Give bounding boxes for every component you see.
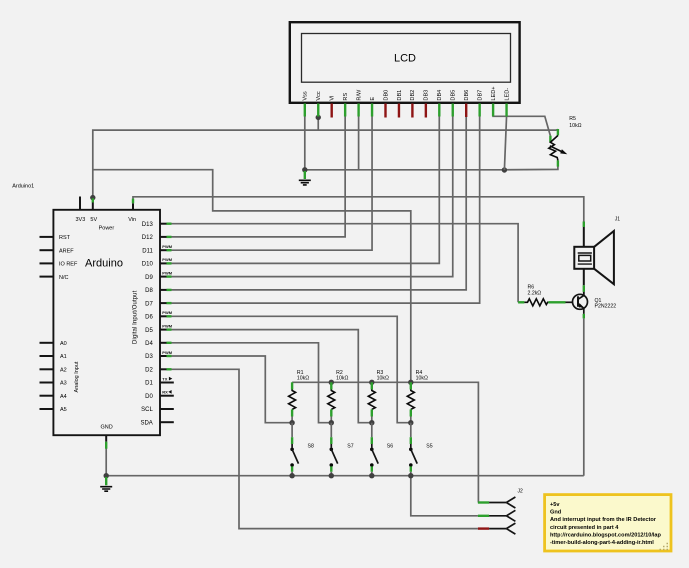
wire Vin to speaker top [133, 197, 584, 222]
pin SCL [141, 407, 174, 413]
resistor R4 10k [407, 370, 428, 423]
speaker J1 [574, 216, 620, 284]
node R3 top [369, 380, 374, 385]
switch S7 [330, 423, 354, 476]
svg-text:GND: GND [100, 425, 112, 431]
pin D13 [142, 222, 172, 228]
svg-text:D7: D7 [145, 301, 153, 307]
ground LCD Vss [299, 171, 311, 185]
svg-text:DB6: DB6 [464, 90, 470, 101]
pin SDA [140, 420, 173, 426]
wire DB4 to Arduino D10 [171, 117, 439, 264]
svg-text:circuit presented in part 4: circuit presented in part 4 [550, 525, 619, 531]
svg-text:A1: A1 [60, 354, 67, 360]
ground Arduino GND [100, 477, 112, 491]
pin RST [40, 235, 71, 241]
pin D4 [145, 341, 171, 347]
svg-text:D3: D3 [145, 354, 153, 360]
node R2 bottom [329, 420, 334, 425]
svg-text:DB7: DB7 [477, 90, 483, 101]
svg-text:R/W: R/W [356, 89, 362, 101]
svg-text:SCL: SCL [141, 407, 153, 413]
svg-text:RST: RST [59, 235, 71, 241]
svg-text:A2: A2 [60, 368, 67, 374]
svg-text:10kΩ: 10kΩ [377, 376, 389, 382]
svg-text:S7: S7 [347, 444, 353, 450]
svg-text:D0: D0 [145, 394, 153, 400]
LCD pin DB0 unconnected [383, 90, 389, 118]
svg-text:D6: D6 [145, 315, 153, 321]
wire D5 to R3 bottom [171, 330, 372, 423]
pin D3 PWM [145, 350, 173, 360]
node S5 bottom [408, 473, 413, 478]
node Vss ground junction [302, 167, 307, 172]
wire LED- slanted to ground rail [504, 117, 506, 171]
pin IO REF [40, 262, 78, 268]
svg-text:J1: J1 [615, 216, 621, 222]
resistor R3 10k [368, 370, 389, 423]
wire Vss down to ground [304, 117, 306, 170]
svg-text:PWM: PWM [162, 350, 172, 355]
svg-text:DB2: DB2 [410, 90, 416, 101]
svg-text:TX: TX [162, 376, 167, 381]
pin D10 PWM [142, 257, 173, 267]
svg-text:Gnd: Gnd [550, 510, 562, 516]
resistor R1 10k [289, 370, 310, 423]
svg-text:P2N2222: P2N2222 [595, 304, 617, 310]
wire E to Arduino D11 [171, 117, 372, 251]
pin D8 [145, 288, 171, 294]
LCD pin Vl unconnected [330, 96, 336, 118]
svg-text:D2: D2 [145, 368, 153, 374]
wire RS to Arduino D12 [171, 117, 345, 237]
wire S5 bottom to J2 pin 2 [411, 476, 478, 516]
wire pullup rail R1 to J2 pin 1 [292, 382, 478, 502]
svg-text:5V: 5V [90, 217, 97, 223]
svg-text:3V3: 3V3 [76, 217, 86, 223]
svg-text:Vl: Vl [330, 96, 336, 101]
svg-text:D11: D11 [142, 248, 153, 254]
wire ground bottom rail [106, 475, 584, 477]
svg-text:10kΩ: 10kΩ [416, 376, 428, 382]
svg-text:LED+: LED+ [491, 86, 497, 100]
pin A4 [40, 394, 67, 400]
Arduino U1 (Arduino1) [53, 210, 160, 435]
svg-text:AREF: AREF [59, 248, 74, 254]
wire D2 to J2 pin 3 [171, 369, 478, 528]
svg-text:DB1: DB1 [397, 90, 403, 101]
connector J2 pin 1 [478, 497, 516, 508]
pin D9 PWM [145, 270, 173, 280]
pin D7 [145, 301, 171, 307]
svg-text:2.2kΩ: 2.2kΩ [528, 290, 542, 296]
svg-text:Arduino: Arduino [85, 258, 123, 270]
wire speaker to Q1 collector [583, 269, 585, 296]
LCD pin DB6 red leg [464, 90, 470, 117]
svg-text:RX: RX [162, 390, 168, 395]
svg-text:SDA: SDA [140, 420, 152, 426]
LCD pin Vss [303, 91, 309, 116]
LCD pin DB4 [437, 90, 443, 117]
svg-text:And interrupt input from the I: And interrupt input from the IR Detector [550, 517, 657, 523]
pin A0 [40, 341, 67, 347]
svg-text:S8: S8 [308, 444, 314, 450]
node R4 top [408, 380, 413, 385]
svg-text:PWM: PWM [162, 310, 172, 315]
pin D11 PWM [142, 244, 173, 254]
pin 5V leg [92, 198, 94, 210]
svg-text:PWM: PWM [162, 270, 172, 275]
transistor Q1 P2N2222 [566, 292, 617, 319]
node LED- junction [502, 167, 507, 172]
connector J2 pin 2 [478, 510, 516, 521]
svg-text:N/C: N/C [59, 275, 69, 281]
pin AREF [40, 248, 75, 254]
wire D4 to R2 bottom [171, 343, 331, 423]
svg-text:RS: RS [343, 93, 349, 101]
svg-text:DB3: DB3 [424, 90, 430, 101]
pin D1 TX [145, 376, 174, 386]
LCD pin R/W [356, 89, 362, 116]
LCD pin DB2 unconnected [410, 90, 416, 118]
pin N/C [40, 275, 69, 281]
LCD pin RS [343, 93, 349, 117]
svg-text:DB5: DB5 [451, 90, 457, 101]
LCD pin DB5 [451, 90, 457, 117]
svg-text:Vin: Vin [128, 217, 136, 223]
note yellow sticky [545, 495, 671, 551]
svg-text:DB0: DB0 [383, 90, 389, 101]
wire DB5 to Arduino D9 [171, 117, 453, 277]
node S6 bottom [369, 473, 374, 478]
svg-text:LED-: LED- [504, 88, 510, 101]
pin D0 RX [145, 390, 174, 400]
svg-text:PWM: PWM [162, 323, 172, 328]
wire Vcc tap down to 5V rail [317, 117, 319, 130]
svg-text:D13: D13 [142, 222, 154, 228]
svg-text:D8: D8 [145, 288, 153, 294]
pin A5 [40, 407, 67, 413]
wire DB7 to Arduino D7 [171, 117, 480, 304]
svg-text:Vss: Vss [303, 91, 309, 101]
node S8 bottom [289, 473, 294, 478]
svg-text:DB4: DB4 [437, 90, 443, 101]
svg-text:http://rcarduino.blogspot.com/: http://rcarduino.blogspot.com/2012/10/la… [550, 532, 662, 538]
pin D2 [145, 368, 171, 374]
node GND junction [104, 473, 109, 478]
svg-text:Vcc: Vcc [316, 91, 322, 101]
wire LCD ground rail to R5 bottom [305, 166, 558, 169]
node Vcc junction [316, 115, 321, 120]
svg-text:LCD: LCD [394, 53, 416, 65]
svg-text:D5: D5 [145, 328, 153, 334]
pin A1 [40, 354, 67, 360]
LCD pin Vcc [316, 91, 322, 116]
LCD pin DB7 [477, 90, 483, 117]
svg-text:Analog Input: Analog Input [74, 361, 80, 392]
svg-text:+5v: +5v [550, 502, 560, 508]
svg-text:A5: A5 [60, 407, 67, 413]
wire DB6 to Arduino D8 [171, 117, 466, 290]
wire D3 to R1 bottom [171, 356, 292, 423]
svg-text:Power: Power [99, 226, 115, 232]
svg-text:10kΩ: 10kΩ [569, 123, 581, 129]
svg-text:A0: A0 [60, 341, 67, 347]
svg-text:D12: D12 [142, 235, 154, 241]
svg-text:S6: S6 [387, 444, 393, 450]
resistor R2 10k [328, 370, 349, 423]
LCD pin LED- [504, 88, 510, 117]
wire 5V rail from Arduino 5V up and right to R5 top [93, 130, 558, 198]
node S7 bottom [329, 473, 334, 478]
pin A2 [40, 368, 67, 374]
switch S5 [409, 423, 433, 476]
svg-text:D4: D4 [145, 341, 153, 347]
svg-text:S5: S5 [426, 444, 432, 450]
pin 3V3 stub [79, 197, 81, 210]
svg-text:10kΩ: 10kΩ [297, 376, 309, 382]
LCD pin DB1 unconnected [397, 90, 403, 118]
LCD pin DB3 unconnected [424, 90, 430, 118]
node 5V pin junction [90, 195, 95, 200]
node R1 bottom [289, 420, 294, 425]
svg-text:E: E [370, 97, 376, 101]
wire R6 to Q1 base [554, 301, 566, 303]
svg-text:-timer-build-along-part-4-addi: -timer-build-along-part-4-adding-ir.html [550, 540, 654, 546]
connector J2 pin 3 red leg [478, 523, 516, 534]
wire D13 to R6 [171, 224, 518, 303]
wire R/W down to ground rail [358, 117, 360, 170]
svg-text:PWM: PWM [162, 244, 172, 249]
switch S6 [370, 423, 393, 476]
pin GND leg [105, 435, 107, 449]
svg-text:D9: D9 [145, 275, 153, 281]
svg-text:A4: A4 [60, 394, 67, 400]
pin D5 PWM [145, 323, 173, 333]
node R4 bottom [408, 420, 413, 425]
svg-text:D10: D10 [142, 262, 154, 268]
svg-text:PWM: PWM [162, 257, 172, 262]
svg-text:Arduino1: Arduino1 [12, 184, 34, 190]
node R2 top [329, 380, 334, 385]
svg-text:10kΩ: 10kΩ [336, 376, 348, 382]
svg-text:J2: J2 [518, 488, 524, 494]
wire 5V branch to pullup rail at R4 [93, 170, 411, 383]
node R3 bottom [369, 420, 374, 425]
svg-text:A3: A3 [60, 381, 67, 387]
pin Vin leg [132, 199, 134, 210]
LCD pin E [370, 97, 376, 117]
resistor R6 2.2k [518, 285, 554, 306]
svg-text:Digital Input/Output: Digital Input/Output [133, 290, 139, 344]
svg-text:D1: D1 [145, 381, 153, 387]
switch S8 [290, 423, 314, 476]
wire Arduino GND down to rail [105, 449, 107, 476]
svg-text:R5: R5 [569, 116, 576, 122]
pin A3 [40, 381, 67, 387]
wire LED+ to R5 top-left terminal [493, 116, 550, 136]
pin D12 [142, 235, 172, 241]
pin D6 PWM [145, 310, 173, 320]
LCD module [290, 22, 520, 103]
potentiometer R5 10k trimmer [549, 116, 582, 166]
LCD pin LED+ [491, 86, 497, 116]
wire Q1 emitter to ground rail [583, 318, 585, 475]
wire D6 to R4 bottom [171, 316, 411, 422]
svg-text:IO REF: IO REF [59, 262, 78, 268]
